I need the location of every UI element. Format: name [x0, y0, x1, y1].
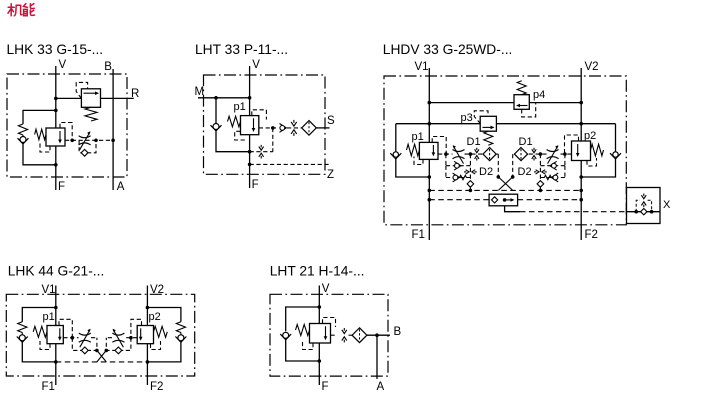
shuttle valve box	[489, 194, 517, 206]
port F2 line	[580, 161, 582, 241]
main valve box	[310, 324, 331, 344]
relief valve p4 arrow	[520, 105, 528, 107]
bypass check valve	[81, 149, 88, 156]
node n2	[95, 349, 99, 353]
p1 drain pilot	[414, 157, 423, 165]
shuttle output wire	[505, 206, 520, 212]
wire check valve to F	[23, 144, 56, 165]
orifice check right	[533, 148, 535, 150]
svg-text:V: V	[252, 59, 260, 71]
filter D1 right	[514, 148, 527, 161]
wire left branch bottom	[396, 159, 430, 177]
main valve p1 box	[241, 116, 259, 135]
p2 metering dashed line	[559, 153, 572, 155]
port V2 line	[146, 286, 148, 326]
orifice check left	[476, 148, 478, 150]
shuttle ball right	[537, 181, 544, 188]
wire check to V	[216, 131, 250, 152]
p1 drain pilot	[235, 131, 246, 140]
svg-text:F: F	[252, 179, 259, 191]
X circuit box	[627, 188, 661, 224]
port F line	[318, 343, 320, 385]
valve body boundary LHK44	[6, 294, 194, 376]
pilot drop line	[272, 128, 274, 152]
node m1	[444, 152, 448, 156]
wire left branch bottom	[22, 342, 56, 362]
throttle right	[112, 333, 124, 335]
svg-text:F: F	[58, 181, 65, 193]
p1 metering line	[63, 337, 78, 339]
port V2 line	[580, 68, 582, 141]
pilot cross lines	[97, 350, 106, 362]
wire D1 to cross left	[496, 153, 498, 155]
port F2 line	[146, 344, 148, 385]
main valve p1 arrow	[253, 118, 255, 128]
node V2 top	[146, 306, 150, 310]
relief valve p3 arrow	[483, 126, 492, 128]
svg-text:F2: F2	[585, 229, 598, 241]
port V line	[249, 66, 251, 116]
wire M line	[198, 97, 250, 99]
svg-text:F1: F1	[412, 229, 425, 241]
svg-text:LHK 33 G-15-...: LHK 33 G-15-...	[7, 42, 104, 57]
main valve p2 box	[572, 141, 591, 161]
valve body boundary LHT21	[270, 294, 388, 376]
main valve p2 arrow	[577, 144, 579, 154]
node V1-p4 junction	[428, 101, 432, 105]
left check valve	[21, 333, 23, 335]
svg-text:F1: F1	[42, 381, 55, 393]
right check spring	[176, 322, 185, 333]
drain pilot	[303, 342, 314, 350]
svg-text:p4: p4	[533, 89, 545, 101]
pilot orifice line	[250, 151, 273, 153]
check valve C2	[211, 125, 222, 131]
node n1	[71, 336, 75, 340]
main valve p1 box	[47, 326, 63, 344]
valve body boundary LHDV33	[384, 76, 626, 225]
wire left branch bottom	[286, 340, 320, 362]
wire branch to check valve	[23, 110, 56, 124]
left sub row2	[445, 154, 447, 166]
p2 pilot hook	[565, 135, 579, 154]
main valve p2 spring	[591, 144, 604, 156]
svg-text:M: M	[195, 86, 205, 98]
svg-text:V2: V2	[150, 284, 164, 296]
orifice check symbol	[343, 328, 345, 331]
port V1 line	[55, 286, 57, 326]
check valve s4	[550, 161, 557, 170]
svg-text:p2: p2	[149, 311, 161, 323]
wire A line	[376, 335, 378, 379]
node V1 row A	[428, 189, 432, 193]
shuttle valve ball	[492, 197, 498, 203]
node V2 row B	[579, 198, 583, 202]
svg-text:D1: D1	[519, 136, 533, 148]
wire row B dashed	[429, 199, 489, 201]
main valve p2 box	[137, 326, 153, 344]
node V1-p3 junction	[428, 122, 432, 126]
port F line	[249, 135, 251, 188]
wire to S port	[316, 127, 329, 129]
output dashed line	[331, 334, 337, 336]
left bypass box	[72, 338, 97, 351]
node m4	[539, 152, 543, 156]
main valve drain pilot	[40, 144, 50, 153]
relief valve spring	[85, 107, 97, 121]
wire row A dashed	[429, 189, 581, 191]
svg-text:B: B	[394, 326, 402, 338]
X orifice symbol	[643, 194, 645, 197]
check valve	[280, 334, 291, 340]
svg-text:R: R	[131, 88, 139, 100]
right bypass check	[115, 347, 122, 354]
node F2 branch junction	[579, 175, 583, 179]
wire left branch top	[22, 308, 56, 322]
svg-text:p1: p1	[412, 131, 424, 143]
p1 pilot hook	[59, 319, 72, 337]
throttle left	[453, 150, 465, 152]
main valve pilot hook	[60, 123, 72, 141]
node V1 row B	[428, 198, 432, 202]
pilot hook	[323, 318, 336, 328]
left check spring	[18, 322, 27, 333]
check valve spring	[18, 124, 27, 135]
node X left	[634, 210, 638, 214]
svg-text:X: X	[663, 199, 671, 211]
p2 drain pilot	[151, 341, 161, 350]
svg-text:D1: D1	[467, 136, 481, 148]
main valve arrow	[325, 326, 327, 336]
svg-text:p1: p1	[43, 311, 55, 323]
port F1 line	[428, 159, 430, 240]
wire R line	[56, 97, 82, 99]
check valve s2 with spring	[453, 173, 460, 182]
main valve p1 spring	[33, 326, 47, 337]
svg-text:A: A	[377, 381, 385, 393]
X check ball	[641, 209, 647, 215]
right bypass box	[106, 338, 131, 351]
wire right branch bottom	[147, 342, 181, 362]
main valve p1 arrow	[432, 145, 434, 153]
X circuit line	[627, 211, 661, 213]
node cross left top	[497, 175, 501, 179]
svg-text:p3: p3	[461, 112, 473, 124]
throttle right	[547, 150, 559, 152]
left bypass check	[81, 347, 88, 354]
wire right branch top	[147, 308, 181, 322]
node M junction	[214, 96, 218, 100]
p1 pilot hook	[252, 110, 267, 120]
port B/A line	[112, 69, 114, 190]
left sub row3	[445, 166, 447, 178]
wire to B port	[367, 334, 390, 336]
node n4	[105, 349, 109, 353]
wire left branch top	[286, 307, 320, 331]
orifice s6	[534, 171, 536, 173]
svg-text:LHT 33 P-11-...: LHT 33 P-11-...	[195, 42, 288, 57]
wire bottom dashed row	[56, 361, 148, 363]
node m3	[563, 152, 567, 156]
node V-branch junction	[54, 109, 58, 113]
pilot line to throttle	[65, 139, 113, 141]
node F2 branch	[146, 360, 150, 364]
filter D1 left	[483, 148, 496, 161]
bypass dashed box	[79, 140, 96, 153]
main valve p1 arrow	[59, 328, 61, 337]
node pilot bottom	[248, 150, 252, 154]
relief valve pilot line	[76, 82, 87, 98]
svg-text:A: A	[117, 181, 125, 193]
orifice check symbol	[293, 120, 295, 123]
p1 output dashed line	[259, 127, 276, 129]
check valve right	[610, 153, 621, 159]
svg-text:F: F	[322, 381, 329, 393]
main valve p2 arrow	[140, 328, 142, 337]
port V line	[318, 286, 320, 324]
throttle left	[79, 333, 91, 335]
relief valve arrow	[84, 92, 96, 94]
main valve p1 spring	[407, 144, 420, 156]
p2 metering line	[125, 337, 138, 339]
p4 pilot line	[522, 103, 536, 117]
relief valve p4 box	[514, 95, 529, 110]
svg-text:V: V	[59, 59, 67, 71]
wire right branch	[615, 124, 617, 152]
wire left branch	[395, 124, 397, 152]
node V2 cross junction	[579, 122, 583, 126]
relief valve box	[81, 89, 100, 108]
node output junction	[271, 126, 275, 130]
svg-text:Z: Z	[327, 169, 334, 181]
check valve left	[390, 153, 401, 159]
svg-text:V: V	[322, 283, 330, 295]
left sub vertical	[469, 154, 471, 180]
valve body boundary LHT33	[204, 75, 326, 174]
svg-text:D2: D2	[518, 166, 532, 178]
check valve C1	[22, 135, 24, 137]
small check valve	[280, 124, 287, 133]
svg-text:V1: V1	[42, 284, 56, 296]
relief valve p4 spring	[517, 81, 526, 95]
node F1 branch junction	[428, 175, 432, 179]
X bypass dashed	[636, 200, 640, 211]
svg-text:D2: D2	[479, 166, 493, 178]
wire D1 to cross right	[512, 154, 514, 177]
main valve spring	[296, 325, 310, 336]
node A junction	[375, 333, 379, 337]
page title 机能 (drawn as vector strokes)	[8, 4, 34, 16]
p1 metering dashed line	[438, 153, 453, 155]
orifice s3	[464, 171, 466, 173]
svg-text:LHK 44 G-21-...: LHK 44 G-21-...	[8, 264, 105, 279]
port F1 line	[55, 344, 57, 385]
node F1 branch	[54, 360, 58, 364]
main valve p1 spring	[228, 116, 241, 127]
svg-text:LHT 21 H-14-...: LHT 21 H-14-...	[270, 264, 365, 279]
node n3	[129, 336, 133, 340]
port V line	[55, 66, 57, 128]
svg-text:LHDV 33 G-25WD-...: LHDV 33 G-25WD-...	[383, 42, 513, 57]
port V1 line	[428, 68, 430, 142]
shuttle valve arrow	[505, 199, 511, 201]
main valve p2 spring	[154, 326, 168, 337]
svg-text:V2: V2	[585, 61, 599, 73]
node pilot dot 1	[70, 139, 74, 143]
node m2	[469, 152, 473, 156]
node pilot dot on A	[111, 139, 115, 143]
p2 drain pilot	[587, 158, 597, 166]
right check valve	[180, 333, 182, 335]
svg-text:B: B	[104, 61, 112, 73]
svg-text:V1: V1	[415, 61, 429, 73]
shuttle ball left	[467, 181, 474, 188]
main valve spring	[35, 129, 46, 140]
node row A right	[539, 189, 543, 193]
p1 drain pilot	[40, 341, 50, 350]
svg-text:S: S	[327, 115, 335, 127]
valve body boundary LHK33	[7, 74, 127, 177]
main valve arrow	[59, 131, 61, 140]
right sub row3	[564, 166, 566, 178]
node V1 top	[54, 306, 58, 310]
port F line	[55, 146, 57, 190]
shuttle valve node	[503, 198, 507, 202]
svg-text:p2: p2	[584, 130, 596, 142]
wire M branch down	[215, 98, 217, 123]
p1 pilot hook	[432, 137, 446, 155]
node V-R junction	[54, 97, 58, 101]
wire p3 line	[396, 123, 480, 125]
node F junction	[54, 163, 58, 167]
node X right	[650, 210, 654, 214]
node pilot dot 2	[94, 139, 98, 143]
relief valve p3 spring	[484, 131, 493, 145]
node V2 row A	[579, 189, 583, 193]
svg-text:F2: F2	[150, 381, 163, 393]
p3 pilot line	[474, 111, 488, 124]
node V top	[318, 305, 322, 309]
pilot cross lines	[498, 177, 512, 191]
relief valve p3 box	[480, 116, 496, 131]
node V top junction	[248, 96, 252, 100]
node Z junction	[248, 163, 252, 167]
main control valve box	[46, 128, 65, 146]
throttle valve	[79, 136, 91, 138]
right sub vertical	[539, 154, 541, 180]
pilot orifice symbol	[260, 145, 262, 148]
svg-text:p1: p1	[234, 101, 246, 113]
filter D	[352, 328, 367, 343]
wire right branch bottom	[581, 159, 615, 177]
p2 pilot hook	[131, 319, 142, 337]
right sub row2	[564, 154, 566, 166]
node row A left	[469, 189, 473, 193]
node cross right top	[511, 175, 515, 179]
wire p4 line	[429, 102, 514, 104]
check valve s1	[454, 161, 461, 170]
check valve s5 with spring	[551, 173, 558, 182]
filter D	[302, 121, 317, 136]
wire Z dashed line	[250, 163, 331, 165]
node V2-p4 junction	[579, 101, 583, 105]
node F branch	[318, 359, 322, 363]
main valve p1 box	[419, 142, 438, 159]
